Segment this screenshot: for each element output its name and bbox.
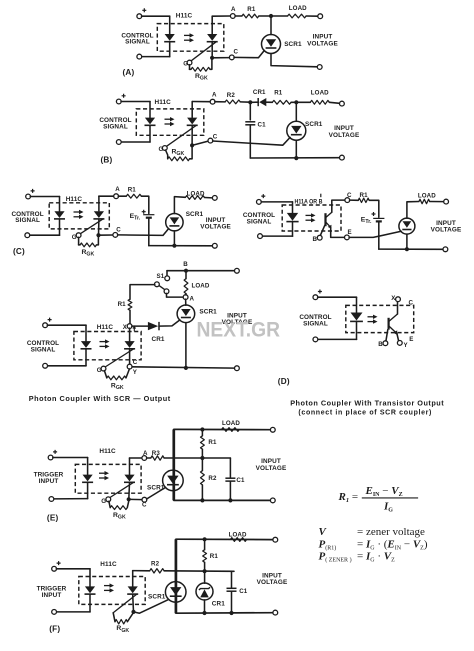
svg-text:SCR1: SCR1	[284, 41, 302, 48]
wire LOAD to node A	[185, 294, 187, 295]
svg-text:C: C	[234, 49, 239, 56]
svg-text:C1: C1	[239, 588, 248, 595]
wire R1 to node (E)	[201, 449, 203, 458]
wire to bottom-left terminal (E)	[54, 498, 88, 500]
node C terminal (B)	[208, 138, 213, 143]
wire G to RGK (A)	[189, 65, 191, 70]
svg-text:LOAD: LOAD	[192, 282, 210, 289]
resistor RGK (F)	[115, 620, 127, 624]
wire anode to A terminal (C-left)	[99, 195, 114, 197]
optocoupler H11C dashed box (E)	[75, 464, 141, 493]
wire C to R1 (C-right)	[350, 199, 359, 201]
wire anode to R2 (F)	[133, 570, 150, 572]
node + (top-left terminal, D)	[313, 295, 318, 300]
wire R3 to gate node (E)	[164, 457, 230, 459]
wire base lead (C-right)	[320, 225, 325, 235]
wire top-left to LED anode (C-left)	[30, 196, 59, 198]
svg-text:R1: R1	[118, 301, 127, 308]
junction C1/rail (F)	[229, 611, 233, 615]
svg-text:VOLTAGE: VOLTAGE	[256, 465, 287, 472]
wire LED cathode drop (E)	[87, 483, 89, 499]
wire C1 to bottom rail (B)	[249, 125, 251, 158]
wire photo-SCR anode (F)	[132, 571, 134, 587]
wire LED cathode drop (F)	[89, 595, 91, 612]
svg-text:B: B	[313, 236, 318, 243]
wire RGK to cathode node (F)	[127, 613, 133, 622]
junction rail/R1 (F)	[203, 537, 207, 541]
thyristor SCR1 (SCR-output)	[177, 305, 195, 323]
node + (top-left terminal, SCR-output)	[43, 323, 48, 328]
node Y (D)	[397, 341, 402, 346]
resistor R1 (F)	[203, 550, 207, 563]
wire photo-SCR cathode (SCR-output)	[129, 350, 131, 365]
wire photo-SCR anode (E)	[129, 458, 131, 474]
optocoupler H11C dashed box (SCR-output)	[74, 332, 141, 360]
svg-text:VOLTAGE: VOLTAGE	[307, 40, 338, 47]
top rail (F)	[176, 538, 273, 540]
node E terminal (C-right)	[345, 235, 350, 240]
svg-text:VOLTAGE: VOLTAGE	[200, 223, 231, 230]
optocoupler H11C dashed box (B)	[136, 109, 204, 135]
wire C1 to bottom rail (E)	[229, 481, 231, 500]
wire RGK to cathode node (A)	[210, 60, 212, 70]
bottom-left terminal (D)	[313, 337, 318, 342]
wire top-left to LED anode (F)	[56, 568, 90, 570]
wire C to SCR1 gate (E)	[147, 487, 166, 499]
junction R1/LOAD/SCR anode (A)	[269, 14, 273, 18]
wire CR1 to SCR1 gate	[159, 320, 180, 326]
wire A to R1 (A)	[235, 15, 242, 17]
svg-text:INPUT: INPUT	[334, 125, 354, 132]
wire LOAD to right terminal (C-left)	[205, 197, 213, 199]
svg-text:INPUT: INPUT	[39, 478, 59, 485]
top rail (E)	[174, 428, 271, 430]
wire LED anode drop (E)	[87, 458, 89, 475]
svg-text:(D): (D)	[278, 377, 290, 386]
junction SCR cathode/rail (C-right)	[405, 247, 409, 251]
bottom rail (F)	[176, 612, 273, 615]
svg-text:P( ZENER ): P( ZENER )	[319, 551, 352, 564]
svg-text:SCR1: SCR1	[186, 211, 204, 218]
inductor LOAD (B)	[310, 100, 329, 104]
svg-text:H11C: H11C	[100, 561, 117, 568]
battery ETr (C-right)	[373, 218, 384, 221]
anode bus (thick) (F)	[175, 539, 178, 613]
svg-text:Y: Y	[133, 369, 138, 376]
bottom rail (C-right)	[379, 248, 443, 250]
node C terminal (C-left)	[113, 233, 118, 238]
wire G to RGK (E)	[109, 501, 110, 507]
wire collector to X (D)	[397, 301, 399, 314]
wire G to RGK (SCR-output)	[104, 371, 106, 378]
svg-text:Photon Coupler With Transistor: Photon Coupler With Transistor Output	[290, 399, 444, 408]
wire LED anode drop (C-right)	[292, 202, 294, 213]
switch S1	[155, 276, 170, 294]
LED of coupler (D)	[350, 313, 363, 322]
wire gate to RGK (F)	[113, 613, 115, 622]
wire LED anode drop (C-left)	[59, 197, 61, 212]
junction cathode node (E)	[127, 497, 131, 501]
svg-text:SIGNAL: SIGNAL	[125, 38, 150, 45]
wire E to SCR1 gate (C-right)	[349, 231, 401, 237]
right top terminal (C-right)	[444, 199, 449, 204]
wire RGK to cathode node (E)	[127, 501, 128, 507]
inductor LOAD (C-left)	[185, 196, 204, 200]
svg-text:RGK: RGK	[111, 382, 124, 391]
svg-text:VOLTAGE: VOLTAGE	[431, 227, 462, 234]
inductor LOAD (A)	[288, 14, 307, 18]
capacitor C1 (B)	[245, 122, 255, 125]
node A terminal (B)	[210, 99, 215, 104]
wire LED cathode drop (D)	[356, 322, 358, 340]
svg-text:Y: Y	[404, 342, 409, 349]
svg-text:R2: R2	[151, 560, 160, 567]
wire G to RGK (C-left)	[78, 237, 80, 245]
node A terminal (E)	[142, 456, 147, 461]
wire C1 to bottom rail (F)	[231, 592, 233, 614]
node + (top-left terminal, C-left)	[26, 194, 31, 199]
node G (SCR-output)	[101, 366, 106, 371]
right top terminal (B)	[340, 101, 345, 106]
node C/Y (SCR-output)	[127, 364, 132, 369]
svg-text:(F): (F)	[49, 625, 60, 634]
resistor R1 (B)	[272, 100, 291, 104]
node G (A)	[187, 60, 192, 65]
wire to C terminal (C-left)	[99, 234, 114, 236]
resistor RGK (SCR-output)	[107, 376, 126, 380]
wire to bottom-left terminal (B)	[121, 141, 150, 143]
svg-text:R1: R1	[274, 89, 283, 96]
right bottom terminal (F)	[273, 610, 278, 615]
wire R1 to LOAD (B)	[291, 101, 310, 103]
svg-text:H11C: H11C	[99, 448, 116, 455]
svg-text:SIGNAL: SIGNAL	[31, 347, 56, 354]
right top terminal (F)	[273, 537, 278, 542]
node X	[127, 324, 132, 329]
svg-text:C: C	[347, 192, 352, 199]
LED of coupler H11C (E)	[82, 475, 93, 483]
node C terminal (A)	[229, 55, 234, 60]
svg-text:SIGNAL: SIGNAL	[103, 124, 128, 131]
wire to bottom-left terminal (C-right)	[262, 235, 292, 237]
resistor R2 (B)	[225, 100, 240, 104]
thyristor SCR1 (B)	[287, 121, 306, 140]
svg-text:C: C	[116, 227, 121, 234]
wire SCR1 cathode (B)	[295, 140, 297, 158]
thyristor SCR1 (E)	[163, 470, 184, 491]
junction R1/R2 (E)	[200, 456, 204, 460]
svg-text:H11C: H11C	[155, 99, 172, 106]
resistor R1 (E)	[201, 436, 205, 449]
wire battery to bottom rail (C-left)	[148, 218, 150, 246]
node A terminal (C-left)	[114, 194, 119, 199]
wire X to CR1	[132, 325, 148, 327]
right bottom terminal (E)	[270, 498, 275, 503]
wire top-left to LED anode (B)	[121, 101, 150, 103]
wire LED anode drop (A)	[169, 16, 171, 34]
junction CR1/rail (F)	[202, 611, 206, 615]
wire anode to A terminal (B)	[192, 101, 210, 103]
svg-text:C: C	[133, 359, 138, 366]
photo-SCR of coupler (A)	[191, 34, 218, 61]
photo-SCR of coupler (E)	[110, 475, 135, 498]
node G (B)	[162, 146, 167, 151]
wire C to SCR1 gate (A)	[234, 50, 264, 57]
node + (top-left terminal, E)	[48, 455, 53, 460]
wire A to R1 (C-left)	[118, 195, 126, 197]
wire top-left to LED anode (E)	[53, 457, 88, 459]
node G (E)	[106, 497, 111, 502]
svg-text:INPUT: INPUT	[313, 33, 333, 40]
bottom-left terminal (C-left)	[25, 233, 30, 238]
svg-text:RGK: RGK	[195, 73, 208, 82]
svg-text:(C): (C)	[13, 247, 25, 256]
wire photo-SCR cathode (C-left)	[98, 220, 100, 236]
wire emitter to Y (D)	[397, 333, 399, 340]
svg-text:EIN − VZ: EIN − VZ	[365, 485, 403, 498]
junction cathode/bottom rail (B)	[294, 156, 298, 160]
diode CR1 (SCR-output)	[148, 322, 159, 330]
thyristor SCR1 (A)	[262, 35, 281, 54]
svg-text:R1: R1	[210, 553, 219, 560]
resistor R1 (C-right)	[358, 198, 369, 202]
wire node to C1 (B)	[249, 102, 251, 120]
svg-text:A: A	[212, 92, 217, 99]
resistor R1 (SCR-output)	[128, 299, 132, 310]
svg-text:(A): (A)	[123, 68, 135, 77]
right top terminal (C-left)	[212, 196, 217, 201]
wire photo-SCR cathode (B)	[191, 126, 193, 145]
svg-text:SCR1: SCR1	[305, 121, 323, 128]
resistor R1 (C-left)	[126, 194, 141, 198]
wire base lead to B (D)	[386, 330, 388, 342]
optocoupler H11C dashed box (C-left)	[49, 203, 109, 229]
zener CR1 (F)	[196, 583, 213, 600]
svg-text:IG: IG	[383, 501, 393, 514]
svg-text:LOAD: LOAD	[418, 192, 436, 199]
junction R1/R2/CR1 (F)	[203, 569, 207, 573]
wire photo-SCR anode (B)	[191, 102, 193, 118]
formula R1 = (EIN - VZ)/IG	[338, 485, 419, 514]
wire R1 to battery (C-left)	[141, 196, 148, 213]
wire R1 to LOAD (A)	[259, 15, 288, 17]
svg-text:ETr.: ETr.	[361, 216, 372, 225]
wire rail to R1 (F)	[204, 539, 206, 549]
node + (top-left terminal, circuit B)	[116, 99, 121, 104]
svg-text:RGK: RGK	[113, 512, 126, 521]
wire node to C1 (E)	[229, 458, 231, 478]
resistor RGK (E)	[110, 506, 127, 510]
thyristor SCR1 (F)	[165, 582, 186, 603]
svg-text:R1: R1	[208, 439, 217, 446]
junction node B	[184, 269, 188, 273]
wire SCR1 cathode to bottom terminal (A)	[271, 54, 317, 67]
svg-text:A: A	[143, 450, 148, 457]
wire LOAD to right terminal (A)	[306, 15, 318, 17]
wire CR1 to R1 (B)	[266, 101, 272, 103]
svg-text:CR1: CR1	[212, 601, 225, 608]
LED of coupler H11A (C-right)	[286, 213, 298, 222]
wire SCR1 cathode (C-left)	[173, 231, 175, 246]
resistor R2 (F)	[150, 569, 164, 573]
wire R1 to S1 pivot	[130, 285, 155, 300]
wire to C terminal (B)	[192, 141, 208, 145]
formula V = zener voltage	[319, 526, 426, 538]
inductor LOAD (F)	[230, 538, 246, 542]
svg-text:G: G	[97, 367, 102, 374]
svg-text:SCR1: SCR1	[199, 309, 217, 316]
wire X to photo-SCR anode	[129, 328, 131, 341]
LED of coupler H11C (C-left)	[54, 211, 65, 219]
svg-text:C: C	[409, 299, 414, 306]
wire to bottom-left terminal (D)	[318, 338, 357, 340]
light arrows (B)	[165, 117, 175, 126]
svg-text:(B): (B)	[101, 155, 113, 164]
node G (C-left)	[76, 233, 81, 238]
junction SCR cathode/rail (C-left)	[172, 244, 176, 248]
wire node to C1 (F)	[231, 571, 233, 588]
node + (top-left terminal, C-right)	[257, 200, 262, 205]
wire LED anode drop (SCR-output)	[85, 325, 87, 341]
light arrows (E)	[99, 471, 109, 480]
wire collector to C terminal (C-right)	[332, 200, 345, 212]
wire B to LOAD	[185, 271, 187, 279]
wire SCR1 anode to LOAD (C-left)	[174, 197, 185, 214]
svg-text:G: G	[72, 234, 77, 241]
inductor LOAD (E)	[222, 428, 240, 432]
svg-text:Photon Coupler With SCR — Outp: Photon Coupler With SCR — Output	[29, 394, 171, 403]
svg-text:VOLTAGE: VOLTAGE	[257, 579, 288, 586]
wire SCR1 cathode (SCR-output)	[185, 323, 187, 368]
svg-text:SCR1: SCR1	[148, 594, 166, 601]
photo-SCR of coupler (C-left)	[80, 211, 104, 234]
svg-text:SIGNAL: SIGNAL	[15, 217, 40, 224]
right top terminal (A)	[318, 14, 323, 19]
wire R2 to node (B)	[240, 101, 250, 103]
bottom-left terminal (SCR-output)	[43, 363, 48, 368]
wire C to SCR1 gate (C-left)	[118, 229, 169, 236]
light arrows (C-right)	[306, 213, 316, 222]
right bottom terminal (B)	[340, 155, 345, 160]
bottom rail (C-left)	[149, 245, 213, 247]
resistor R3 (E)	[151, 456, 164, 460]
svg-text:R2: R2	[227, 92, 236, 99]
wire LED anode drop (B)	[149, 102, 151, 118]
junction cathode node (B)	[190, 143, 194, 147]
LED of coupler H11C (B)	[145, 118, 156, 126]
photo-SCR of coupler (B)	[167, 118, 198, 147]
wire top-left to LED anode (C-right)	[261, 201, 292, 203]
bottom-left terminal (E)	[49, 497, 54, 502]
wire anode to A terminal (A)	[212, 15, 230, 17]
right top terminal (E)	[270, 427, 275, 432]
wire RGK to node C/Y	[126, 369, 129, 378]
wire node to R2 (E)	[201, 458, 203, 471]
bottom-left terminal (B)	[116, 140, 121, 145]
wire LED anode drop (F)	[89, 569, 91, 586]
wire SCR1 anode (B)	[295, 102, 297, 121]
svg-text:INPUT: INPUT	[42, 592, 62, 599]
svg-text:E: E	[409, 336, 413, 343]
right bottom terminal (A)	[317, 65, 322, 70]
right bottom terminal (SCR-output)	[235, 366, 240, 371]
wire LOAD to right terminal (B)	[329, 102, 339, 103]
resistor RGK (A)	[191, 67, 210, 71]
bottom-left terminal (C-right)	[258, 234, 263, 239]
svg-text:LOAD: LOAD	[187, 190, 205, 197]
svg-text:B: B	[378, 341, 383, 348]
thyristor SCR1 (C-right)	[399, 218, 415, 234]
svg-text:S1: S1	[157, 273, 165, 280]
wire LED cathode drop (C-right)	[292, 222, 294, 236]
svg-text:(E): (E)	[47, 513, 59, 522]
wire to C terminal (A)	[212, 57, 230, 59]
junction C1/rail (E)	[228, 498, 232, 502]
wire photo-SCR anode (A)	[211, 16, 213, 34]
wire cathode to SCR1 gate (F)	[134, 600, 168, 613]
capacitor C1 (E)	[225, 478, 235, 481]
resistor RGK (B)	[168, 157, 190, 161]
svg-text:= IG · VZ: = IG · VZ	[357, 551, 395, 564]
formula P(ZENER) = IG VZ	[319, 551, 396, 564]
phototransistor (D)	[389, 314, 398, 335]
light arrows (F)	[104, 583, 114, 592]
formula P(R1) = IG (EIN - VZ)	[319, 539, 428, 552]
wire photo-SCR anode (C-left)	[98, 196, 100, 211]
svg-text:R1: R1	[128, 187, 137, 194]
wire top-left to LED anode (D)	[318, 296, 357, 298]
inductor LOAD (SCR-output)	[184, 279, 188, 294]
wire battery to bottom rail (C-right)	[378, 222, 380, 250]
optocoupler H11C dashed box (A)	[157, 24, 224, 52]
wire to bottom-left terminal (SCR-output)	[47, 365, 86, 367]
wire A to R2 (B)	[215, 101, 225, 103]
svg-text:R1 =: R1 =	[338, 491, 359, 504]
junction cathode node (A)	[210, 56, 214, 60]
optocoupler H11A/B dashed box (C-right)	[282, 205, 341, 231]
wire R2 to gate node (F)	[164, 570, 234, 573]
svg-text:C: C	[142, 501, 147, 508]
inductor LOAD (C-right)	[419, 199, 430, 203]
junction cathode node (C-left)	[96, 233, 100, 237]
svg-text:G: G	[101, 498, 106, 505]
wire photo-SCR cathode (F)	[132, 595, 135, 612]
diode CR1 (B)	[258, 98, 266, 106]
right top terminal (SCR-output)	[235, 268, 240, 273]
wire rail to S1 top contact	[166, 271, 168, 277]
right bottom terminal (C-right)	[443, 247, 448, 252]
bottom rail (B)	[250, 157, 339, 159]
junction cathode node (F)	[131, 610, 135, 614]
svg-text:RGK: RGK	[172, 149, 185, 158]
svg-text:C: C	[213, 134, 218, 141]
wire LED cathode drop (SCR-output)	[85, 350, 87, 366]
node C terminal (E)	[142, 497, 147, 502]
anode bus (thick) (E)	[172, 429, 175, 500]
bottom-left terminal (F)	[52, 610, 57, 615]
svg-text:B: B	[183, 261, 188, 268]
svg-text:R1: R1	[360, 192, 369, 199]
wire RGK to cathode node (B)	[190, 147, 193, 159]
bottom-left terminal (A)	[137, 54, 142, 59]
svg-text:H11C: H11C	[176, 13, 193, 20]
node B (D)	[383, 341, 388, 346]
right bottom terminal (C-left)	[212, 243, 217, 248]
svg-text:ETr.: ETr.	[130, 213, 141, 222]
svg-text:C1: C1	[258, 121, 267, 128]
svg-text:= zener voltage: = zener voltage	[357, 526, 425, 538]
battery ETr (C-left)	[143, 215, 154, 218]
